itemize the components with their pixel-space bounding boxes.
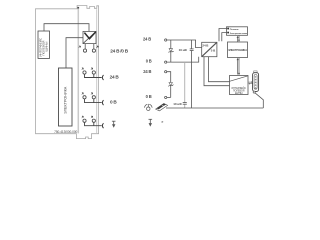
bus link arrows to connector [248,81,252,84]
svg-text:750-413/000-000: 750-413/000-000 [54,130,77,134]
terminal row 2 (24V) [83,71,86,74]
legend wires [219,29,227,42]
DC/DC converter 24V->5V [202,42,217,56]
fieldbus interface box (right) [230,76,249,95]
contact 1 [165,39,167,41]
terminal row 4 (earth) [83,119,86,122]
wire diode box to electronics [66,38,83,68]
electronics box (left module) [59,68,73,126]
svg-text:24 В /0 В: 24 В /0 В [110,48,128,53]
data bus arrows bottom [237,58,241,76]
rail mount symbol [144,104,152,111]
fieldbus interface box U1 [38,31,50,58]
svg-text:10 нФ: 10 нФ [173,102,182,106]
DIN rail symbol (oblique) [156,104,168,111]
24V top wire [167,40,202,48]
terminal row 1 (24V/0V input) [84,44,86,49]
0V bottom wire [167,57,199,62]
svg-text:24 В: 24 В [143,69,151,74]
svg-text:Питание: Питание [230,29,240,31]
legend box (data contacts) [227,27,248,36]
svg-text:ЭЛЕКТРОНИКА: ЭЛЕКТРОНИКА [63,86,67,114]
svg-text:ЭЛЕКТРОНИКА: ЭЛЕКТРОНИКА [228,48,247,52]
module outline (left coupler body) [36,6,99,139]
svg-text:24 В: 24 В [202,44,209,48]
suppressor diode Z2 [169,83,172,86]
rail contact nub [77,7,79,9]
svg-text:ШИНЫ: ШИНЫ [235,92,243,95]
contact 2 [165,61,167,63]
gray screen wire [184,62,186,102]
svg-text:0 В: 0 В [146,59,152,64]
svg-text:0 В: 0 В [146,94,152,99]
D-sub fieldbus connector [254,71,257,73]
connector earth wire [255,93,263,108]
wire interface to diode box [44,24,89,32]
svg-text:ШИНЫ: ШИНЫ [45,41,49,51]
0V drop wire to cap C2 and earth bus [191,62,193,108]
power jumper rail right [96,9,98,133]
terminal row 3 (0V) [83,96,86,99]
diode box D1 [83,31,96,43]
contact 4 [165,96,167,98]
power jumper rail left [77,9,79,134]
DC/DC output wires to fieldbus interface [204,57,230,86]
svg-text:24 В: 24 В [110,75,120,80]
suppressor diode Z1 [170,40,172,49]
svg-text:Электроника шины: Электроника шины [230,33,248,35]
svg-text:10 нФ: 10 нФ [179,48,188,52]
functional earth symbol (right) [149,119,153,126]
electronics box (right) [228,42,248,58]
contact 3 [165,71,167,73]
svg-text:е: е [162,120,164,124]
data bus arrows top [237,36,240,42]
functional earth symbol (left) [112,121,116,128]
earth bus [166,107,263,109]
svg-text:24 В: 24 В [143,36,151,41]
svg-text:0 В: 0 В [110,99,117,104]
